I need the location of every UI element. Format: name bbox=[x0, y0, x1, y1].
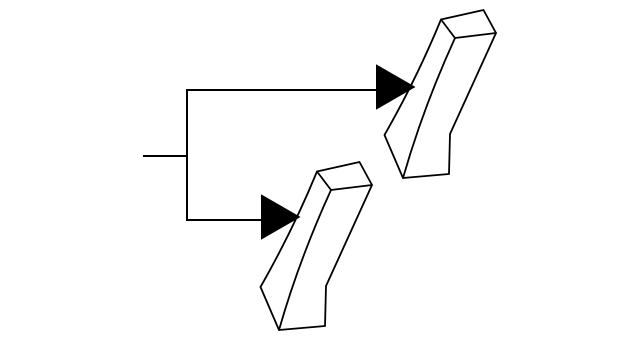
wire bottom horizontal bbox=[186, 219, 262, 221]
part lower bar bbox=[261, 162, 373, 330]
wire vertical branch bbox=[186, 89, 188, 221]
part upper bar bbox=[385, 10, 497, 178]
arrow to upper bar bbox=[376, 64, 416, 110]
wire stub left bbox=[143, 155, 188, 157]
wire top horizontal bbox=[186, 89, 377, 91]
arrow to lower bar bbox=[261, 194, 301, 240]
